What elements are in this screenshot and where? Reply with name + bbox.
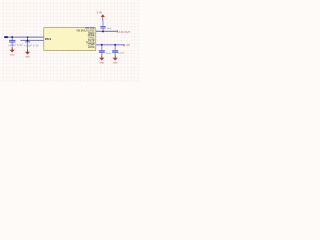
svg-text:AGND: AGND bbox=[88, 46, 95, 49]
svg-text:100uF: 100uF bbox=[118, 53, 125, 55]
svg-text:10uF: 10uF bbox=[106, 53, 112, 55]
svg-text:VIN: VIN bbox=[97, 11, 103, 15]
svg-text:5.0V OUT: 5.0V OUT bbox=[119, 30, 131, 34]
svg-text:10nF: 10nF bbox=[107, 28, 112, 30]
svg-text:+10uF 6.3V: +10uF 6.3V bbox=[24, 43, 39, 47]
svg-text:+10uF 6.3V: +10uF 6.3V bbox=[8, 43, 23, 47]
svg-text:VIN S: VIN S bbox=[45, 38, 52, 41]
svg-text:ON: ON bbox=[126, 44, 130, 47]
